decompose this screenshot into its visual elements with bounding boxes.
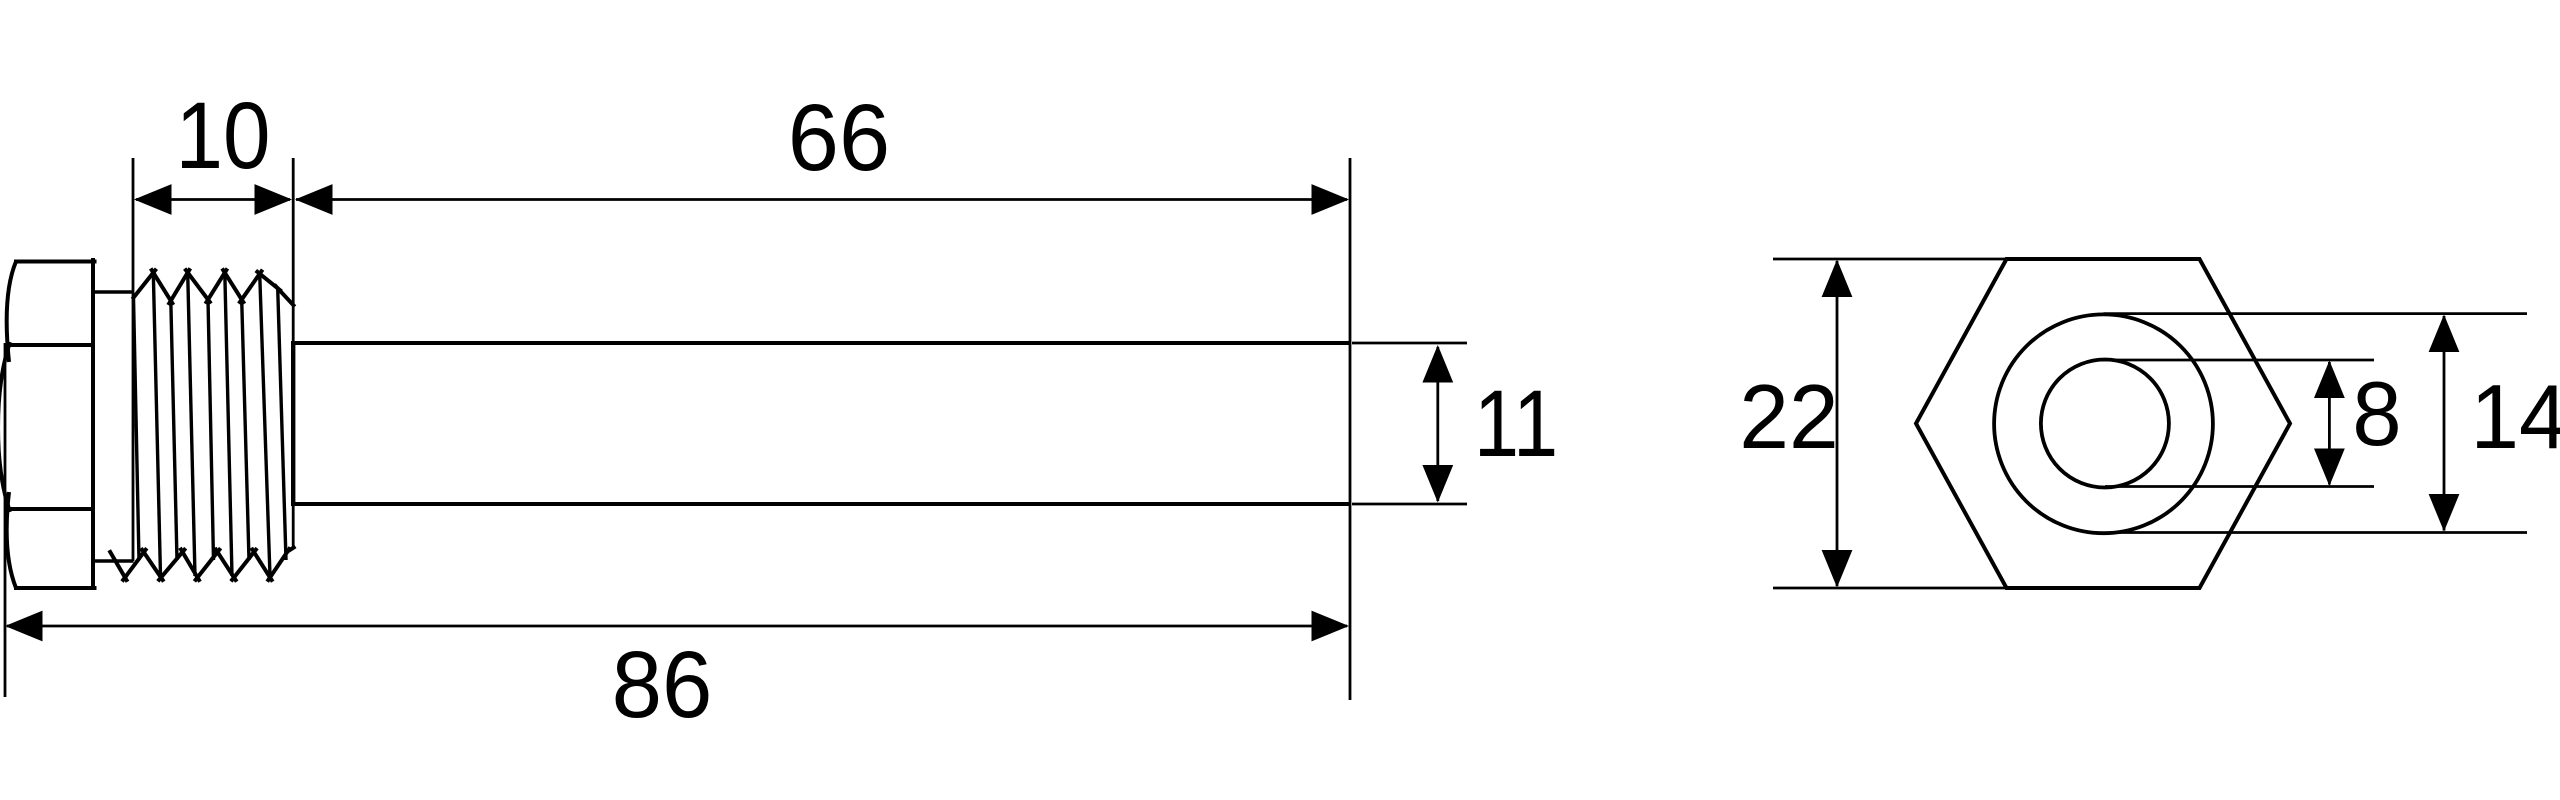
hex head top edge (14, 260, 97, 264)
inner circle d8 (2041, 360, 2169, 488)
label 10 (176, 89, 271, 184)
collar bottom edge (95, 559, 134, 562)
dimension line 66 (296, 198, 1347, 201)
outer circle d14 (1994, 314, 2213, 533)
arrow dim86 right (1312, 611, 1350, 642)
dimension line 14 (2443, 316, 2446, 531)
arrow dim14 top (2429, 315, 2460, 353)
extension line inner circle top (2102, 359, 2374, 362)
dimension line 11 (1436, 347, 1439, 501)
arrow dim10 right (255, 184, 293, 215)
arrow dim11 bottom (1422, 465, 1453, 503)
arrow dim10 left (134, 184, 172, 215)
arrow dim11 top (1422, 345, 1453, 383)
extension line thread start (132, 158, 135, 561)
extension line tube end (1349, 158, 1352, 700)
dimension line 10 (136, 198, 290, 201)
tube left end cap (291, 343, 295, 505)
arrow dim86 left (5, 611, 43, 642)
hexagon end view (1916, 259, 2290, 588)
hex head left chamfer arc middle face (0, 342, 10, 512)
hex head lower facet line (10, 507, 92, 511)
extension line tube bottom right (1352, 503, 1467, 506)
thread helix lines (134, 273, 287, 576)
arrow dim22 top (1822, 260, 1853, 298)
label 22 (1739, 372, 1839, 463)
label 11 (1474, 377, 1558, 472)
arrow dim8 bottom (2314, 449, 2345, 487)
extension line tube top right (1352, 342, 1467, 345)
extension line hex top (1773, 258, 2007, 261)
hex head left chamfer arc top face (7, 262, 16, 363)
extension line outer circle top (2104, 312, 2528, 315)
thread bottom crest zigzag (109, 546, 295, 581)
extension line head left (4, 343, 7, 697)
dimension line 8 (2328, 362, 2331, 485)
extension line inner circle bottom (2105, 485, 2374, 488)
collar top edge (93, 290, 133, 293)
arrow dim8 top (2314, 361, 2345, 399)
extension line outer circle bottom (2110, 531, 2527, 534)
hex head left chamfer arc bottom face (7, 492, 16, 588)
dimension line 86 (7, 625, 1347, 628)
label 8 (2352, 369, 2401, 460)
hex head bottom edge (14, 586, 97, 590)
arrow dim66 left (295, 184, 333, 215)
thread top crest zigzag (132, 268, 294, 306)
label 86 (612, 638, 713, 733)
hex head upper facet line (10, 343, 92, 347)
arrowheads (5, 184, 2459, 641)
dimension line 22 (1836, 261, 1839, 586)
thread right edge lower (292, 504, 295, 548)
extension line hex bottom (1773, 587, 2005, 590)
label 66 (788, 91, 890, 186)
extension line thread end (292, 158, 295, 303)
arrow dim14 bottom (2429, 494, 2460, 532)
tube top line (291, 341, 1350, 345)
label 14 (2471, 372, 2560, 463)
thread right edge upper (292, 303, 295, 344)
hex head right edge (91, 258, 95, 590)
arrow dim22 bottom (1822, 550, 1853, 588)
tube bottom line (291, 502, 1350, 506)
arrow dim66 right (1312, 184, 1350, 215)
